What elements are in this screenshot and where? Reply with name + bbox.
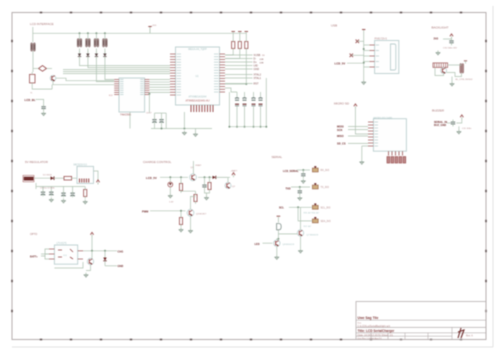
ground opto — [84, 273, 89, 277]
wire led row — [263, 242, 273, 244]
svg-text:XTAL1: XTAL1 — [254, 77, 262, 80]
svg-text:MICRO SD: MICRO SD — [334, 101, 350, 105]
capacitor C9 ser — [298, 188, 302, 195]
svg-text:22R: 22R — [260, 63, 264, 65]
resistor R12 — [245, 31, 248, 33]
svg-text:Q8 BSS123: Q8 BSS123 — [283, 244, 295, 246]
svg-text:MEGA-A4_TQFP: MEGA-A4_TQFP — [188, 48, 207, 51]
junction usb — [363, 48, 365, 50]
svg-text:D1 SS14: D1 SS14 — [43, 175, 53, 177]
R13 series — [312, 167, 318, 172]
junction dot rail 3 — [95, 32, 97, 34]
wire sd supply — [355, 109, 368, 135]
svg-text:C10 100n 16V: C10 100n 16V — [443, 48, 458, 50]
wire q5 bottom — [435, 67, 444, 75]
capacitor C10 — [449, 38, 453, 45]
U1 left pins — [170, 54, 176, 95]
junction opto — [91, 250, 93, 252]
wire label stub — [36, 99, 44, 104]
wire ser row2 — [291, 186, 310, 188]
svg-text:LTV-817S: LTV-817S — [57, 243, 68, 245]
ground ser1 — [301, 179, 306, 183]
svg-text:+BATT: +BATT — [231, 170, 238, 173]
svg-text:MICRO-SD CARD: MICRO-SD CARD — [373, 117, 392, 120]
net 3V3 top rail — [33, 32, 246, 34]
svg-text:SCK: SCK — [337, 128, 343, 132]
svg-text:Title: LCD SerialCharger: Title: LCD SerialCharger — [358, 329, 396, 333]
transistor Q9 opto — [87, 258, 93, 264]
svg-text:RST: RST — [254, 83, 259, 86]
IC5 regulator body — [77, 166, 94, 183]
ground lcd section — [41, 111, 46, 115]
wire c10 — [443, 38, 452, 40]
wire LED column 3 — [95, 33, 97, 39]
X2 bottom pins — [389, 151, 403, 155]
supply tick serial — [277, 215, 281, 217]
svg-text:MISO: MISO — [337, 134, 344, 138]
supply arrow batt — [232, 173, 235, 178]
svg-text:PN61729-S: PN61729-S — [375, 38, 388, 41]
LED D1 — [77, 39, 82, 47]
wire q3 down — [190, 216, 192, 228]
svg-text:MIC5219-5.0: MIC5219-5.0 — [74, 164, 88, 166]
inductor L1 — [39, 66, 47, 72]
IC2 left pins — [114, 80, 119, 95]
transistor Q2 right — [225, 183, 231, 189]
junction cap rail — [161, 128, 163, 130]
wire bus b — [63, 71, 170, 73]
capacitor C1 — [152, 117, 156, 123]
svg-text:R15 4k7 R16 4k7: R15 4k7 R16 4k7 — [304, 213, 320, 215]
junction dot rail 2 — [87, 32, 89, 34]
ground q8 — [274, 255, 279, 259]
svg-text:SD_CS: SD_CS — [337, 142, 346, 146]
junction q6 — [277, 238, 279, 240]
wires usb to X1 — [364, 45, 370, 67]
ground backlight — [450, 82, 455, 86]
X1 shell outline — [391, 44, 396, 70]
wire pwm — [150, 210, 186, 212]
svg-text:C:\LCD\LcdSerialBacklight.sch: C:\LCD\LcdSerialBacklight.sch — [358, 325, 391, 328]
Q5 body — [433, 63, 448, 68]
resistor R3 chg — [179, 181, 182, 192]
svg-text:BL_CTRL 2N7002: BL_CTRL 2N7002 — [456, 79, 474, 81]
X1 pin names — [376, 45, 379, 67]
svg-text:BACKLIGHT: BACKLIGHT — [432, 26, 449, 30]
svg-text:BATT+: BATT+ — [30, 256, 38, 259]
svg-text:BUZZER: BUZZER — [432, 109, 445, 113]
X3 power jack — [24, 177, 33, 180]
svg-text:LED: LED — [255, 243, 260, 246]
capacitor C3 — [41, 190, 45, 196]
diode D8 — [103, 51, 106, 59]
ground pwm2 — [188, 229, 193, 233]
diode D5 — [78, 51, 81, 59]
svg-text:ATXMEGA32A4U-AU: ATXMEGA32A4U-AU — [186, 100, 210, 103]
svg-text:1.4V: 1.4V — [169, 202, 174, 204]
diode D2 chg — [213, 176, 216, 179]
ground sd — [359, 160, 364, 164]
U1 bottom pins — [191, 105, 213, 112]
wire IC2 bottom — [129, 112, 131, 129]
wire opto in — [41, 249, 49, 256]
diode D12 varistor — [356, 40, 359, 43]
diode D6 — [86, 51, 89, 59]
wire bus a — [63, 69, 170, 71]
sd net labels — [337, 125, 368, 146]
wire q7 gate — [278, 233, 297, 235]
supply +5V — [96, 180, 99, 185]
capacitor C11 — [451, 120, 455, 127]
svg-text:C6 C7: C6 C7 — [146, 112, 153, 114]
LED D9 left — [31, 43, 36, 51]
wire sd gnd — [362, 145, 368, 147]
svg-text:Rev: A: Rev: A — [466, 335, 473, 338]
wire opto out — [83, 250, 117, 252]
wire Q10 emitter rail — [32, 83, 52, 89]
R14 series — [312, 184, 318, 189]
svg-text:LCD_SERIAL: LCD_SERIAL — [283, 170, 299, 173]
resistor R2 reg — [84, 187, 87, 198]
wire bus c — [63, 73, 170, 75]
wire opto top — [91, 237, 93, 251]
svg-text:GND: GND — [254, 68, 260, 71]
X2 sd card body — [373, 119, 406, 152]
R15 series — [312, 204, 318, 209]
capacitor C6 — [70, 191, 74, 197]
wire LED col2 to MCU — [88, 59, 170, 68]
svg-text:TXD: TXD — [286, 187, 291, 190]
resistor R4 chg — [194, 192, 197, 203]
U1 ATxmega body — [176, 47, 220, 105]
wire usb vertical — [363, 30, 365, 81]
wire q3 up — [191, 197, 196, 210]
junction pullup — [245, 83, 247, 85]
U1 right pins — [220, 54, 226, 92]
resistor R10 — [232, 31, 235, 33]
svg-text:LCD_5V: LCD_5V — [146, 176, 157, 180]
svg-text:SDA_3V3: SDA_3V3 — [321, 220, 332, 223]
wire cap rail — [151, 128, 212, 130]
junction dot rail 1 — [79, 32, 81, 34]
svg-text:Drw Rev 1.0 Chk App Fil: Drw Rev 1.0 Chk App Fil — [358, 337, 382, 340]
ground a — [436, 51, 441, 55]
junction chg — [169, 176, 171, 178]
U1 right pin names — [214, 54, 219, 92]
diode D1 — [51, 176, 55, 180]
svg-text:LCD_5V: LCD_5V — [335, 61, 346, 65]
supply tick bl — [464, 60, 467, 62]
ground usb — [361, 80, 366, 84]
D-shape Q6 — [277, 224, 282, 230]
X1 USB connector body — [375, 41, 399, 74]
wire ser row1 — [297, 169, 310, 171]
wire buz3 — [458, 126, 460, 129]
ground reg1 — [49, 198, 54, 202]
IC4 inner marks — [58, 249, 62, 251]
junction ser1 — [302, 169, 304, 171]
diode D13 varistor — [350, 54, 353, 57]
wire q2 — [227, 177, 229, 182]
title block table — [356, 302, 486, 340]
U1 left pin names — [177, 54, 182, 95]
ground reg3 — [83, 200, 88, 204]
wire q8 drain — [277, 239, 279, 240]
svg-text:FMMT: FMMT — [196, 165, 203, 167]
R20 vertical — [460, 64, 462, 74]
wire chg r6 — [205, 189, 210, 193]
transistor Q3 npn — [187, 209, 194, 216]
wire q6 down — [277, 230, 279, 239]
svg-text:GND: GND — [118, 264, 124, 268]
svg-text:CHARGE CONTROL: CHARGE CONTROL — [143, 160, 172, 164]
svg-text:PWM: PWM — [142, 209, 148, 213]
supply arrow sd — [354, 104, 357, 109]
transistor Q8 mosfet — [274, 240, 280, 246]
IC4 left pins — [49, 249, 54, 259]
crystal Y1 and load capacitors — [225, 78, 267, 128]
resistor R11 — [238, 31, 241, 33]
resistor R6 chg — [208, 180, 211, 191]
svg-text:RX_3V3: RX_3V3 — [321, 170, 330, 172]
sheet edge shadow — [492, 6, 494, 347]
wire LED column 1 — [79, 33, 81, 39]
LED D4 — [103, 39, 108, 47]
wire U1 gnd drop — [165, 113, 167, 128]
junction dot rail 4 — [104, 32, 106, 34]
wire LED col1 to MCU — [80, 59, 171, 66]
ground under U1 b — [195, 129, 197, 133]
title block revision mark — [458, 328, 464, 338]
wire ser row3 — [289, 206, 312, 208]
svg-text:3V3: 3V3 — [434, 36, 439, 40]
capacitor C4 — [49, 190, 53, 196]
IC2 pin names — [120, 80, 144, 95]
svg-text:Date: 14.04.13 20:51 Sheet: 1: Date: 14.04.13 20:51 Sheet: 1/1 — [358, 334, 394, 337]
LED D3 — [168, 182, 173, 187]
svg-text:SCL: SCL — [279, 207, 284, 210]
wire LED column 4 — [104, 33, 106, 39]
X2 pin names — [374, 122, 378, 146]
svg-text:SERIAL: SERIAL — [272, 155, 283, 159]
wire chg main — [160, 176, 188, 178]
ground chg2 — [204, 196, 209, 200]
wire q7 drain up — [300, 207, 302, 230]
capacitor C8 ser — [301, 171, 305, 178]
ground pwm1 — [179, 228, 184, 232]
fuse F1 — [64, 176, 72, 180]
diode D4 opto — [103, 258, 106, 261]
wire IC2 right gnd — [148, 94, 150, 113]
junction pwm — [180, 210, 182, 212]
junction ser2 — [299, 186, 301, 188]
wire LED col3 to IC2 — [96, 59, 114, 82]
wire reg out — [94, 171, 99, 181]
Q5 transistor — [441, 68, 447, 74]
wire down from L1 — [32, 64, 34, 73]
svg-text:BUZ_GND: BUZ_GND — [434, 124, 446, 127]
svg-text:OPTO: OPTO — [30, 232, 37, 236]
U1 right wires and net names — [225, 54, 265, 86]
wire q5-r20 — [448, 64, 462, 66]
wire buz2 — [456, 120, 461, 124]
svg-text:CHG: CHG — [118, 249, 124, 253]
LED D2 — [86, 39, 91, 47]
supply arrow buz — [460, 115, 463, 120]
wire chg mid — [181, 190, 196, 193]
svg-text:USB: USB — [331, 24, 337, 28]
ground under U1 — [182, 131, 187, 135]
wire ser row4 — [298, 207, 312, 221]
ground buz — [457, 130, 462, 134]
LED D3 — [94, 39, 99, 47]
svg-text:C3 10u C4 100n: C3 10u C4 100n — [40, 187, 55, 189]
X2 detect contacts — [387, 157, 406, 163]
capacitor C7 chg — [202, 183, 206, 190]
svg-text:TX_3V3: TX_3V3 — [321, 187, 330, 189]
svg-text:Uwe Sag Tile: Uwe Sag Tile — [358, 316, 379, 320]
wire left col — [32, 51, 34, 64]
supply arrow opto — [90, 232, 93, 237]
wire d4 to label — [105, 265, 117, 267]
transistor Q7 mosfet — [297, 230, 303, 236]
R16 series — [312, 218, 318, 223]
svg-text:Q7 BSS123: Q7 BSS123 — [307, 234, 319, 236]
wire q9 — [91, 251, 93, 258]
svg-text:SCL_3V3: SCL_3V3 — [321, 207, 332, 209]
ground ser2 — [297, 196, 302, 200]
svg-text:ATXMEGA32A4: ATXMEGA32A4 — [189, 96, 207, 99]
IC2 right pins — [145, 80, 150, 95]
ground reg2 — [61, 199, 66, 203]
wire buz — [447, 122, 451, 124]
resistor R5 — [30, 74, 36, 83]
capacitor C5 — [61, 191, 65, 197]
wire Q10 to IC2 — [56, 78, 114, 81]
transistor Q1 pnp — [190, 174, 197, 181]
wires IC2 to U1 — [149, 80, 170, 93]
IC2 74HC595 body — [119, 78, 145, 112]
IC4 right pins — [78, 251, 83, 259]
transistor Q10 — [50, 75, 56, 81]
svg-text:LCD_BL: LCD_BL — [25, 98, 36, 102]
IC5 pad row — [80, 179, 89, 183]
capacitor C2 — [159, 117, 163, 123]
supply +3V3 — [149, 27, 151, 34]
wire q7 source dn — [300, 236, 302, 248]
supply arrow a — [450, 34, 453, 39]
wire pullup joins — [225, 51, 233, 55]
svg-text:Q3 BC817: Q3 BC817 — [196, 213, 207, 215]
svg-text:R17 4k7: R17 4k7 — [304, 226, 312, 228]
diode D7 — [95, 51, 98, 59]
wire LED col4 to IC2 — [105, 59, 114, 79]
X1 pins — [370, 45, 375, 67]
svg-text:C11 100n: C11 100n — [462, 128, 472, 130]
resistor R7 pwm — [179, 215, 182, 226]
svg-text:5V REGULATOR: 5V REGULATOR — [25, 160, 49, 164]
ground chg1 — [168, 194, 173, 198]
IC4 opto body — [54, 245, 77, 264]
wire reg bottom rail — [35, 183, 37, 189]
wire LED column 2 — [87, 33, 89, 39]
svg-text:LCD INTERFACE: LCD INTERFACE — [30, 22, 54, 26]
wire opto loop — [46, 253, 50, 255]
capacitor C20 — [41, 104, 45, 111]
junction ser3 — [297, 206, 299, 208]
wire q8 source — [276, 246, 278, 255]
wire left drop — [32, 27, 34, 42]
ground q7 — [298, 249, 303, 253]
X2 pins — [368, 122, 373, 146]
svg-text:22R: 22R — [260, 59, 264, 61]
